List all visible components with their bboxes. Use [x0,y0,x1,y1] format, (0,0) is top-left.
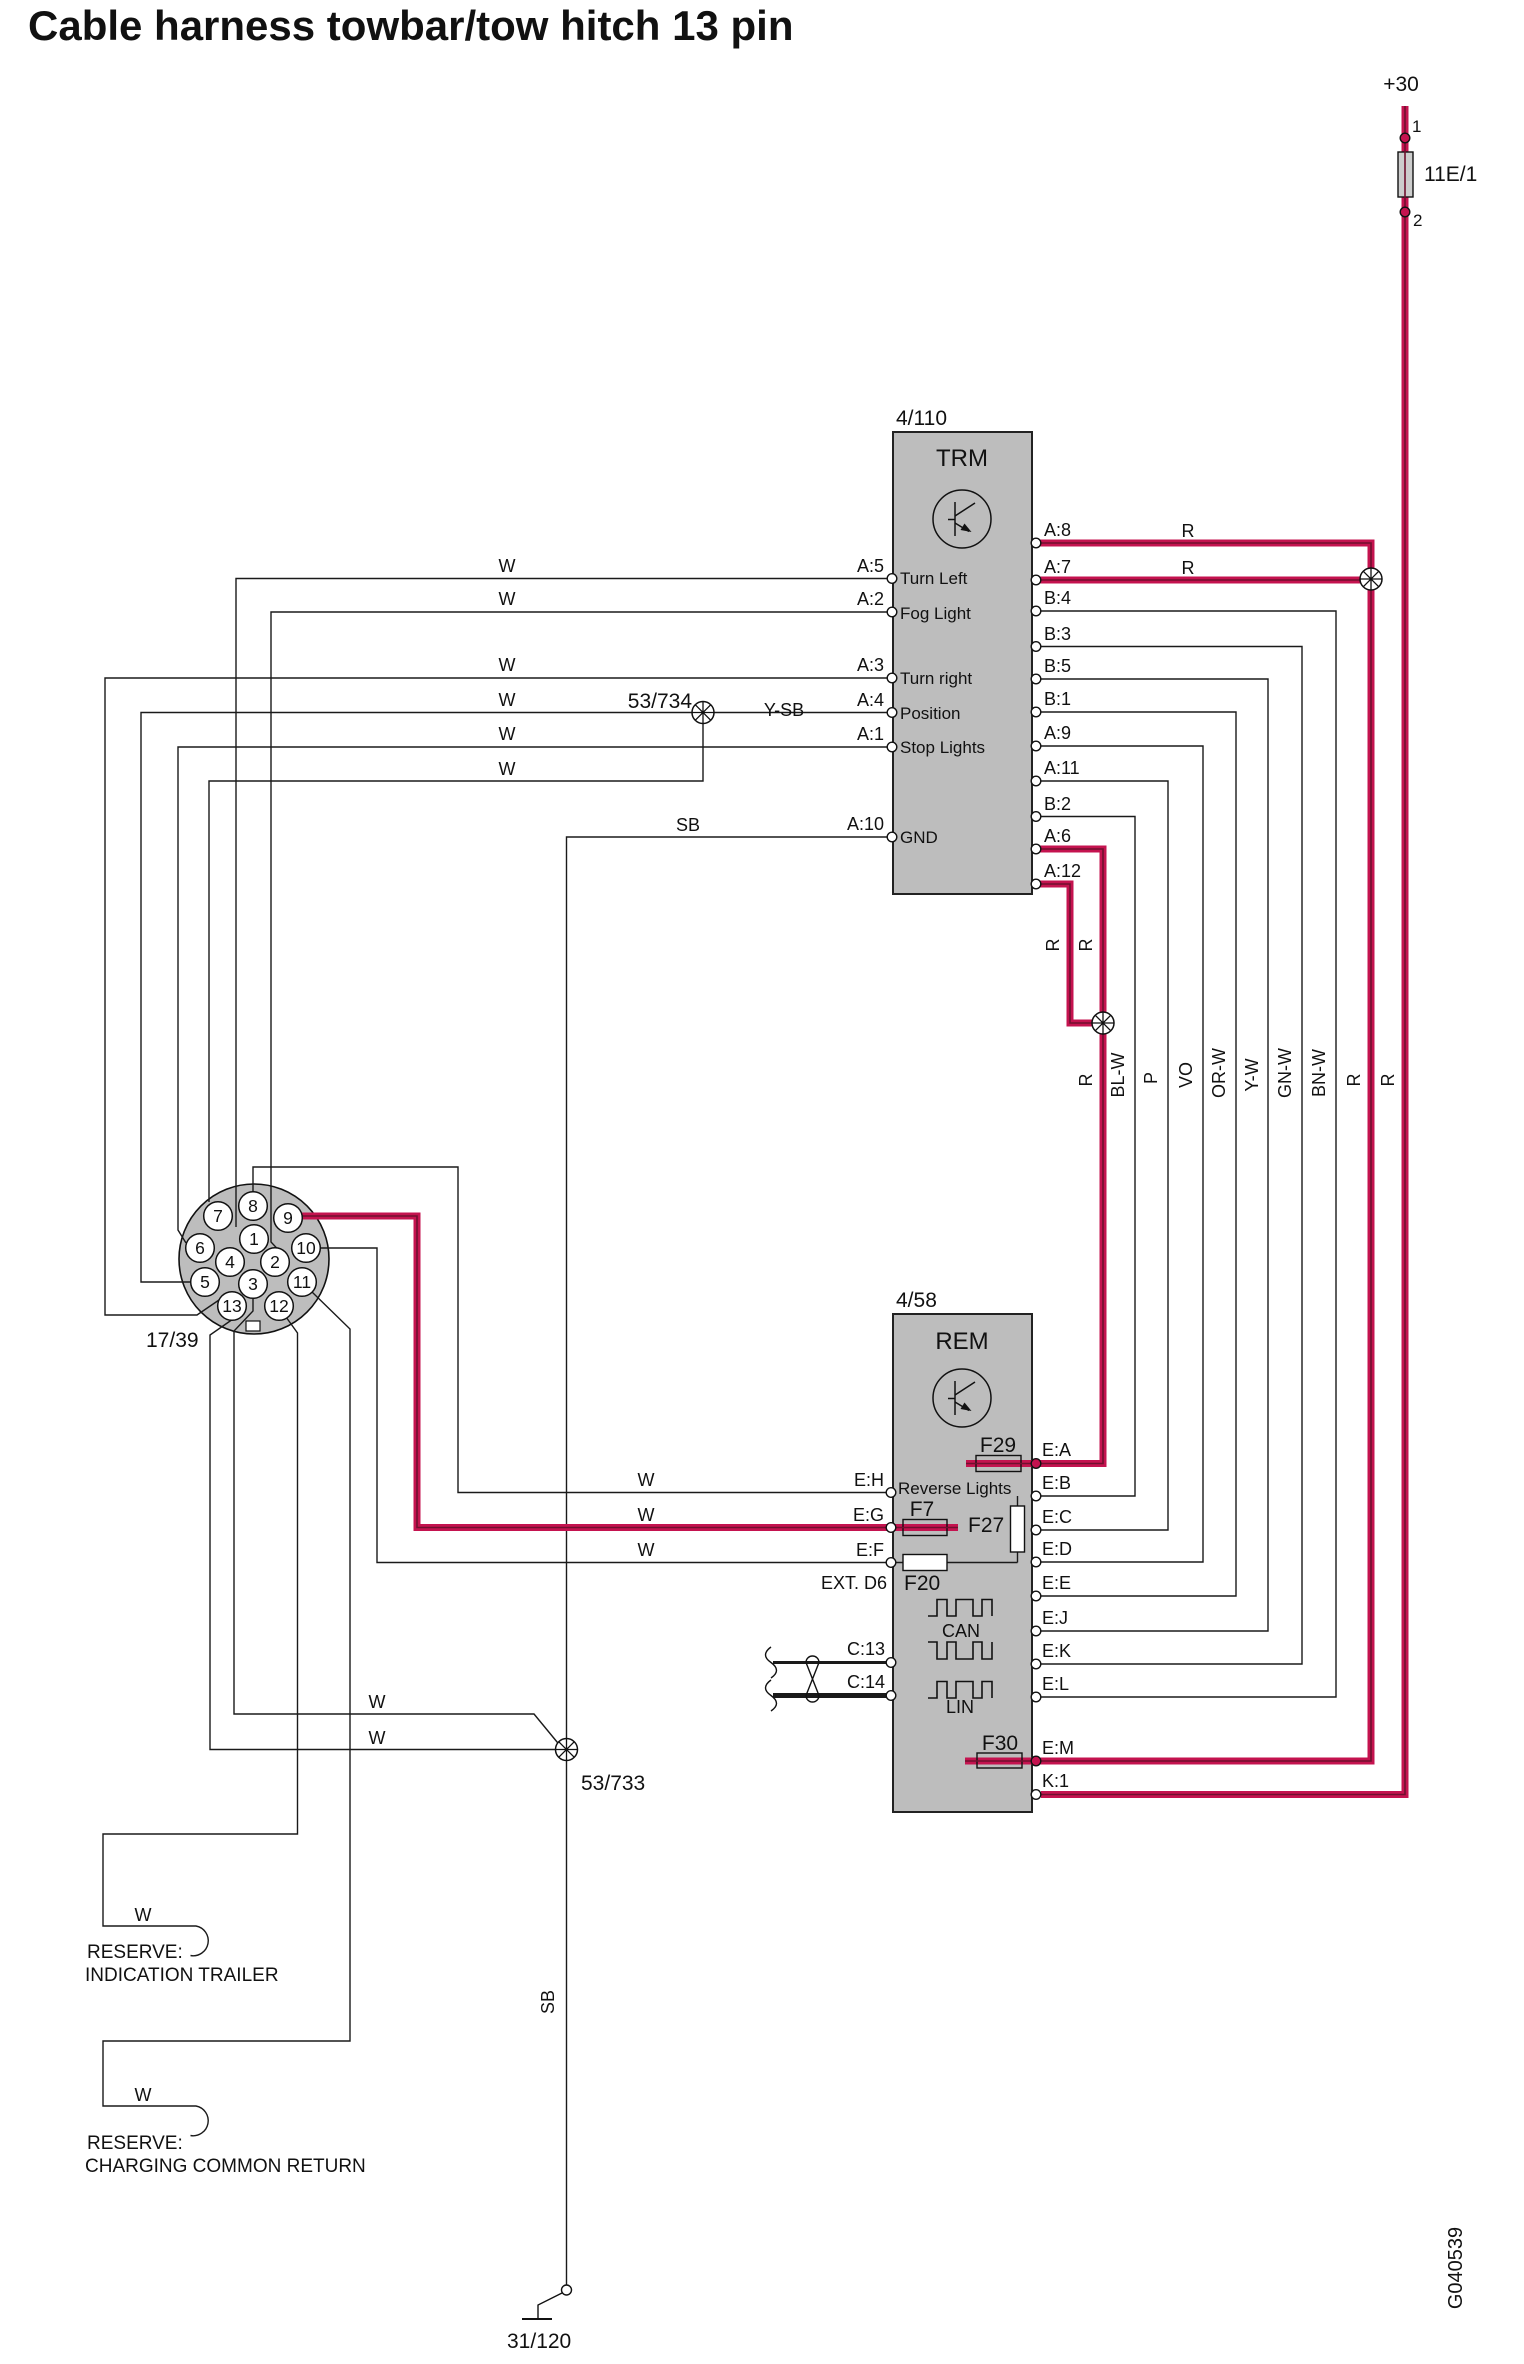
svg-text:3: 3 [248,1274,258,1294]
svg-text:R: R [1076,1074,1096,1087]
svg-text:A:10: A:10 [847,814,884,834]
wire W A:5 Turn Left to connector pin 8 [236,579,891,1228]
svg-text:R: R [1076,939,1096,952]
fuse F7 [903,1520,947,1536]
wire R TRM A:8 to splice [1040,543,1371,570]
svg-text:W: W [499,655,516,675]
svg-text:Position: Position [900,704,960,723]
svg-text:B:4: B:4 [1044,588,1071,608]
svg-text:R: R [1043,939,1063,952]
svg-text:10: 10 [296,1238,316,1258]
svg-text:A:8: A:8 [1044,520,1071,540]
TRM left pins A:5 A:2 A:3 A:4 A:1 A:10 [887,574,897,584]
svg-text:Turn Left: Turn Left [900,569,968,588]
svg-text:TRM: TRM [936,445,988,472]
REM module icon (transistor in circle) [933,1369,991,1427]
wire R TRM A:6 to splice [1040,849,1103,1015]
wire red core line [1040,849,1103,1015]
svg-text:A:2: A:2 [857,589,884,609]
svg-text:C:13: C:13 [847,1639,885,1659]
svg-text:GN-W: GN-W [1275,1048,1295,1098]
wire red core line [1040,884,1095,1023]
wire red core line [1040,543,1371,570]
TRM module icon (transistor in circle) [933,490,991,548]
wire W connector pin 13 to splice 53/733 [210,1319,557,1750]
svg-text:9: 9 [283,1208,293,1228]
svg-text:CAN: CAN [942,1621,980,1641]
svg-text:Reverse Lights: Reverse Lights [898,1479,1011,1498]
splice junction A:6/A:12/E:A [1092,1012,1114,1034]
svg-text:1: 1 [1412,117,1421,136]
wire BN-W TRM B:4 to REM E:L [1040,611,1336,1697]
wire Y-W TRM B:5 to REM E:J [1040,679,1268,1631]
connector pin 11 [288,1268,317,1297]
connector pin 7 [204,1202,233,1231]
svg-text:W: W [638,1540,655,1560]
wire W connector pin 11 to RESERVE CHARGING COMMON RETURN [103,1291,350,2106]
svg-text:R: R [1344,1074,1364,1087]
cable end squiggle C:14 [766,1680,777,1711]
wire R TRM A:7 to splice [1040,577,1368,584]
REM left pins E:H E:G E:F C:13 C:14 [886,1488,896,1498]
svg-text:P: P [1141,1072,1161,1084]
connector pin 2 [261,1248,290,1277]
svg-text:B:1: B:1 [1044,689,1071,709]
svg-text:B:5: B:5 [1044,656,1071,676]
svg-text:A:5: A:5 [857,556,884,576]
svg-text:4: 4 [225,1252,235,1272]
wire W A:4 Position via splice 53/734 to connector pin 5 [141,713,891,1283]
svg-text:E:G: E:G [853,1505,884,1525]
wire R splice to REM E:M through F30 [965,582,1371,1761]
svg-text:B:3: B:3 [1044,624,1071,644]
svg-text:11E/1: 11E/1 [1424,163,1477,186]
svg-text:A:7: A:7 [1044,557,1071,577]
svg-text:7: 7 [213,1206,223,1226]
connector 17/39 body [179,1184,329,1334]
connector pin 12 [265,1292,294,1321]
wire R connector pin 9 to REM E:G through F7 [301,1216,958,1528]
svg-text:A:1: A:1 [857,724,884,744]
svg-text:K:1: K:1 [1042,1771,1069,1791]
svg-text:E:K: E:K [1042,1641,1071,1661]
connector pin 6 [186,1234,215,1263]
svg-text:R: R [1182,558,1195,578]
svg-text:CHARGING COMMON RETURN: CHARGING COMMON RETURN [85,2156,366,2177]
svg-text:W: W [135,2085,152,2105]
ECU TRM 4/110 box [893,432,1032,894]
svg-text:LIN: LIN [946,1697,974,1717]
svg-text:BL-W: BL-W [1108,1052,1128,1097]
wire red core line [965,582,1371,1761]
svg-text:INDICATION TRAILER: INDICATION TRAILER [85,1965,279,1986]
svg-text:C:14: C:14 [847,1672,885,1692]
svg-text:E:E: E:E [1042,1573,1071,1593]
svg-text:17/39: 17/39 [146,1329,199,1352]
wire red core line [1040,579,1368,581]
splice 53/733 [556,1739,578,1761]
ECU REM 4/58 box [893,1314,1032,1812]
svg-text:F7: F7 [910,1498,935,1521]
svg-text:E:C: E:C [1042,1507,1072,1527]
connector pin 4 [216,1248,245,1277]
svg-text:W: W [499,724,516,744]
fuse 11E/1 [1398,152,1413,197]
wire end curl RESERVE CHARGING COMMON RETURN [182,2106,208,2136]
LIN square wave symbol [928,1682,992,1699]
svg-text:53/733: 53/733 [581,1772,645,1795]
svg-text:RESERVE:: RESERVE: [87,1942,183,1963]
svg-text:VO: VO [1176,1062,1196,1088]
svg-text:4/110: 4/110 [896,407,947,430]
svg-text:A:3: A:3 [857,655,884,675]
svg-text:W: W [135,1905,152,1925]
svg-text:G040539: G040539 [1445,2227,1467,2309]
svg-text:1: 1 [249,1229,259,1249]
svg-text:Cable harness towbar/tow hitch: Cable harness towbar/tow hitch 13 pin [28,2,793,49]
wire P TRM A:11 to REM E:C [1040,781,1168,1530]
svg-text:6: 6 [195,1238,205,1258]
connector pin 10 [292,1234,321,1263]
svg-text:F20: F20 [904,1572,940,1595]
wire W connector pin 10 to REM E:F [321,1248,889,1563]
wire red core line [301,1216,958,1528]
connector pin 3 [239,1270,268,1299]
wire GN-W TRM B:3 to REM E:K [1040,647,1302,1665]
svg-text:+30: +30 [1383,73,1419,96]
REM right pins E:B E:C E:D E:E E:J E:K E:L K:1 [1031,1491,1041,1501]
svg-text:GND: GND [900,828,938,847]
fuse F20 [903,1555,947,1571]
svg-text:13: 13 [222,1296,241,1316]
svg-text:W: W [638,1470,655,1490]
wire BL-W TRM B:2 to REM E:B [1040,817,1135,1497]
cable end squiggle C:13 [766,1647,777,1678]
svg-text:W: W [369,1728,386,1748]
wire VO TRM A:9 to REM E:D [1040,746,1203,1562]
svg-text:W: W [638,1505,655,1525]
wire R +30 feed through fuse 11E/1 down to REM K:1 [1041,106,1405,1795]
connector pin 13 [218,1292,247,1321]
connector pin 1 [240,1225,269,1254]
svg-text:12: 12 [269,1296,288,1316]
svg-text:E:H: E:H [854,1470,884,1490]
fuse F27 [1011,1506,1025,1552]
svg-text:A:6: A:6 [1044,826,1071,846]
svg-text:OR-W: OR-W [1209,1048,1229,1098]
svg-text:F29: F29 [980,1434,1016,1457]
svg-text:Fog Light: Fog Light [900,604,971,623]
svg-text:E:A: E:A [1042,1440,1071,1460]
svg-text:R: R [1182,521,1195,541]
svg-text:EXT. D6: EXT. D6 [821,1573,887,1593]
wire red core line [966,1030,1103,1464]
svg-text:5: 5 [200,1272,210,1292]
fuse F29 [976,1456,1021,1472]
REM pin E:A (red) [1031,1459,1041,1469]
connector pin 8 [239,1192,268,1221]
svg-text:2: 2 [1413,211,1422,230]
wire red core line [1041,106,1405,1795]
wire W connector pin 12 to RESERVE INDICATION TRAILER [103,1317,298,1926]
wire OR-W TRM B:1 to REM E:E [1040,712,1236,1596]
svg-text:W: W [369,1692,386,1712]
wire SB A:10 GND via splice 53/733 to ground 31/120 [567,837,892,2285]
svg-text:Y-SB: Y-SB [764,700,804,720]
svg-text:E:J: E:J [1042,1608,1068,1628]
svg-text:E:D: E:D [1042,1539,1072,1559]
svg-text:F30: F30 [982,1732,1018,1755]
ground 31/120 symbol [562,2285,572,2295]
svg-text:RESERVE:: RESERVE: [87,2133,183,2154]
svg-text:SB: SB [676,815,700,835]
svg-text:11: 11 [293,1272,311,1292]
wire end curl RESERVE INDICATION TRAILER [182,1926,208,1956]
wire CAN C:14 [773,1693,886,1698]
wire E:F inside REM through F20 [893,1562,1018,1564]
svg-text:Y-W: Y-W [1242,1058,1262,1091]
svg-text:31/120: 31/120 [507,2330,571,2353]
wire R TRM A:12 to splice [1040,884,1095,1023]
wire W connector pin 8 to REM E:H Reverse Lights [253,1167,889,1493]
svg-text:E:B: E:B [1042,1473,1071,1493]
svg-text:B:2: B:2 [1044,794,1071,814]
svg-text:A:12: A:12 [1044,861,1081,881]
connector keyway notch [246,1321,260,1331]
wire W A:3 Turn right to connector pin 13 [105,678,891,1315]
svg-text:A:4: A:4 [857,690,884,710]
wire R splice to REM E:A through F29 [966,1030,1103,1464]
svg-text:E:F: E:F [856,1540,884,1560]
REM pin E:M (red) [1031,1756,1041,1766]
svg-text:F27: F27 [968,1514,1004,1537]
svg-text:53/734: 53/734 [628,690,693,713]
fuse 11E/1 pin 1 (red) [1400,133,1410,143]
svg-text:Turn right: Turn right [900,669,972,688]
svg-text:4/58: 4/58 [896,1289,937,1312]
fuse 11E/1 pin 2 (red) [1400,207,1410,217]
svg-text:W: W [499,759,516,779]
connector pin 5 [191,1268,220,1297]
wire CAN C:13 [773,1661,886,1664]
wire W A:2 Fog Light to connector pin 1/2 [271,612,891,1259]
splice junction A:8/A:7/E:M [1360,568,1382,590]
svg-text:W: W [499,556,516,576]
svg-text:SB: SB [538,1990,558,2014]
svg-text:A:11: A:11 [1044,758,1080,778]
TRM right pins A:8 A:7 B:4 B:3 B:5 B:1 A:9 A:11 B:2 A:6 A:12 [1031,538,1041,548]
wire fuse F27 link E:B to E:F net [1017,1496,1019,1563]
wire W connector pin 3 to splice 53/733 [234,1299,562,1748]
svg-text:W: W [499,690,516,710]
svg-text:REM: REM [935,1328,988,1355]
svg-text:R: R [1378,1074,1398,1087]
svg-text:E:L: E:L [1042,1674,1069,1694]
svg-text:Stop Lights: Stop Lights [900,738,985,757]
fuse F30 [977,1753,1022,1768]
connector pin 9 [274,1204,303,1233]
svg-text:8: 8 [248,1196,258,1216]
svg-text:A:9: A:9 [1044,723,1071,743]
twisted pair symbol CAN wires [806,1656,819,1662]
svg-text:2: 2 [270,1252,280,1272]
CAN square wave symbol lower [928,1642,992,1659]
svg-text:W: W [499,589,516,609]
wire W A:1 Stop Lights to connector pin 6 [178,747,891,1243]
splice 53/734 [692,702,714,724]
svg-text:BN-W: BN-W [1309,1049,1329,1097]
wire W splice 53/734 branch to connector pin 7 [209,713,703,1203]
CAN square wave symbol upper [928,1600,992,1617]
svg-text:E:M: E:M [1042,1738,1074,1758]
